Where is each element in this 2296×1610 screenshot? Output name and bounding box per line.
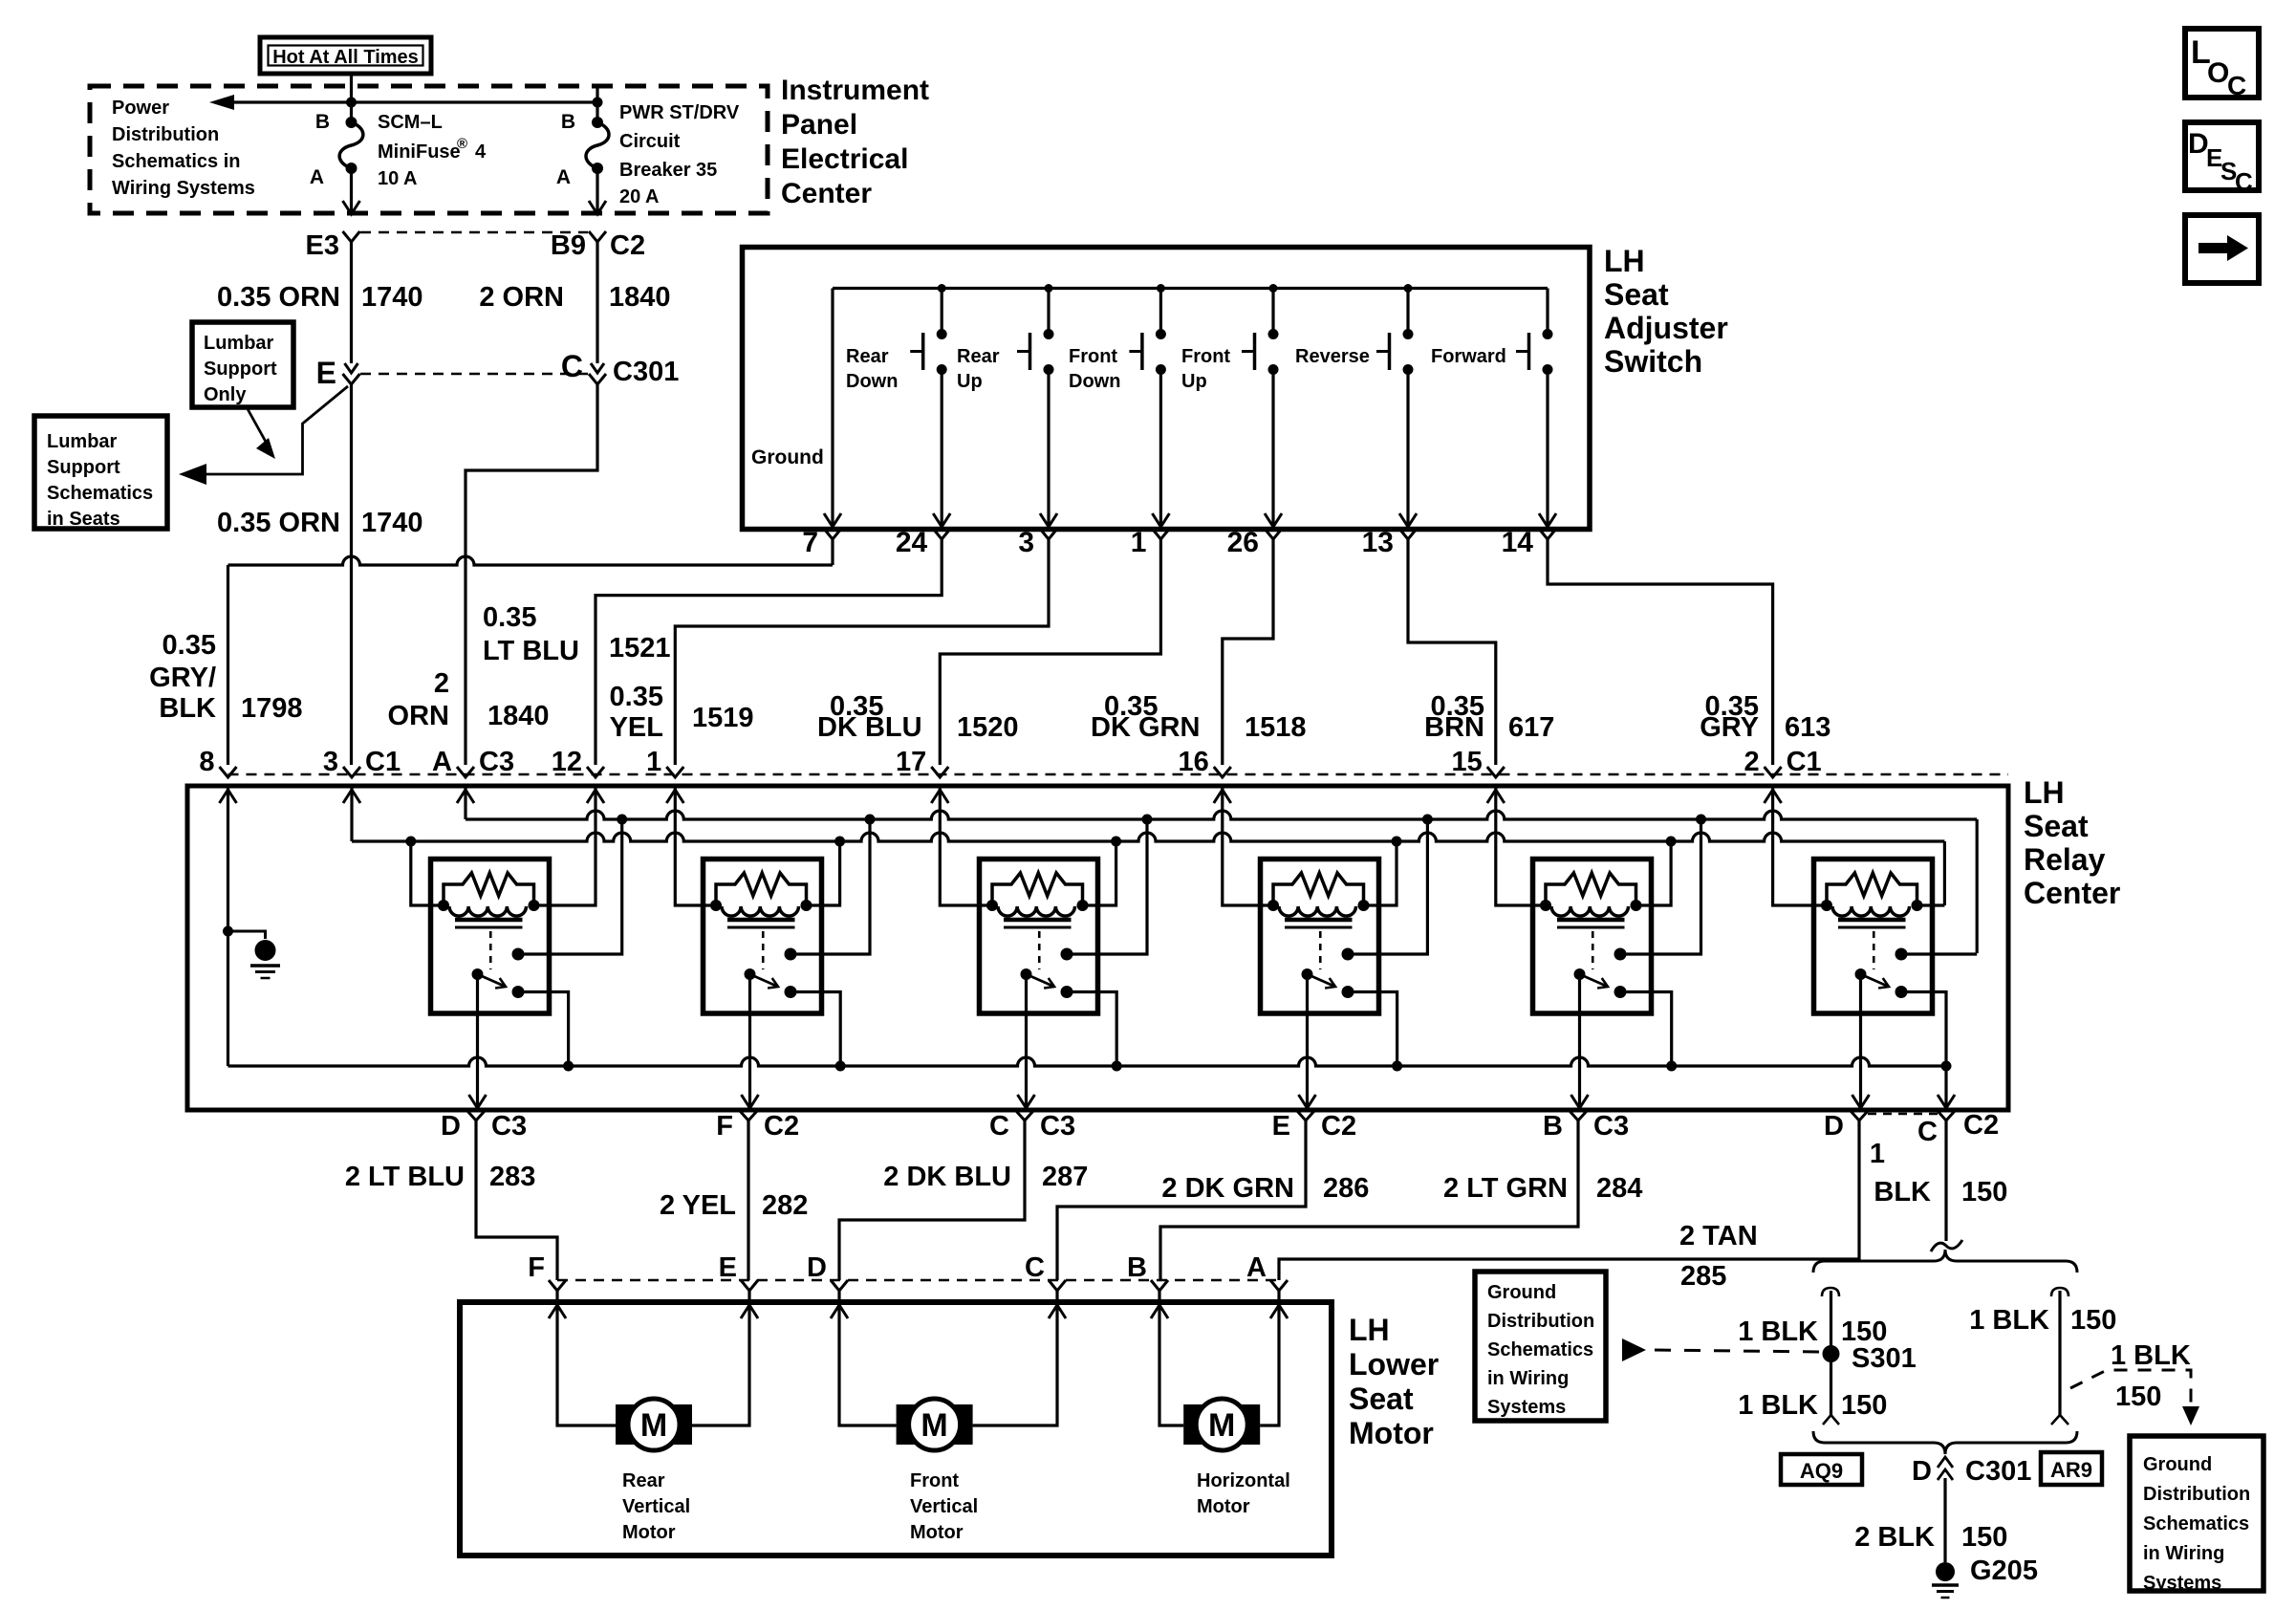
motor entry arrow C [1049, 1305, 1066, 1318]
dashed wire 1 BLK 150 to right Ground Distribution box [2070, 1370, 2191, 1405]
relay 3 coil [998, 906, 1075, 916]
motor connector chevron E [741, 1280, 758, 1291]
node S301 [1823, 1345, 1840, 1362]
relay 2 actuator dashed link [762, 931, 765, 969]
wire 2 BLK 150 to G205 [1943, 1478, 1946, 1562]
relay bottom pin D chevron [467, 1111, 485, 1120]
top brace (wire splice group) [1813, 1250, 2077, 1273]
relay 3 resistor [992, 873, 1083, 905]
svg-text:15: 15 [1452, 747, 1483, 777]
svg-text:Schematics: Schematics [2143, 1513, 2249, 1534]
switch pin 26 chevron [1265, 529, 1282, 539]
connector arrow E [345, 363, 358, 373]
svg-text:2 BLK: 2 BLK [1854, 1522, 1935, 1553]
relay 5 resistor [1546, 873, 1636, 905]
svg-text:Center: Center [2024, 876, 2120, 910]
motor pin F stem [555, 1291, 558, 1302]
relay 2 coil [722, 906, 799, 916]
svg-text:E: E [316, 356, 336, 390]
svg-text:O: O [2207, 57, 2229, 89]
svg-text:Motor: Motor [910, 1522, 964, 1543]
svg-text:LH: LH [2024, 775, 2065, 810]
switch internal bus [833, 287, 1548, 290]
relay 4 coil [1279, 906, 1356, 916]
svg-text:C2: C2 [764, 1111, 799, 1142]
svg-text:Ground: Ground [2143, 1454, 2212, 1475]
dashed connector segment D-C [1868, 1113, 1938, 1116]
wire motor 3 right lead [1260, 1302, 1279, 1425]
switch Forward: lower contact dot [1543, 364, 1553, 375]
right splice wire bottom feet [2051, 1415, 2069, 1425]
svg-text:1 BLK: 1 BLK [1969, 1305, 2049, 1336]
wire relay 6 lower contact to bottom bus [1901, 992, 1946, 1067]
wire 0.35 BRN 617 (pin 13 to relay pin 15) [1408, 539, 1496, 765]
svg-text:D: D [1912, 1456, 1932, 1487]
wire relay 2 common to output pin [748, 974, 751, 1106]
svg-text:Schematics: Schematics [1487, 1339, 1593, 1360]
wire relay 3 upper contact to row A [1067, 819, 1147, 954]
svg-text:C301: C301 [1965, 1456, 2031, 1487]
entry arrow at relay pin A [457, 790, 474, 803]
svg-text:Up: Up [1181, 371, 1207, 392]
relay 6 switch arm [1861, 974, 1890, 987]
junction dot at fuse B [346, 98, 357, 108]
svg-text:Power: Power [112, 98, 169, 119]
relay 1 resistor [444, 873, 534, 905]
relay bottom pin F chevron [740, 1111, 757, 1120]
svg-text:GRY: GRY [1700, 712, 1759, 743]
relay 3 actuator dashed link [1038, 931, 1041, 969]
motor pin D stem [837, 1291, 840, 1302]
relay 3 switch pivot dot [1021, 968, 1032, 980]
svg-text:Support: Support [204, 359, 277, 380]
svg-text:F: F [528, 1252, 545, 1283]
bottom bus junction dot relay 4 [1392, 1061, 1402, 1072]
relay 2 box [704, 859, 822, 1014]
switch pin 3 chevron [1040, 529, 1057, 539]
chassis ground symbol [255, 940, 276, 961]
motor connector chevron C [1049, 1280, 1066, 1291]
motor 1 circle [628, 1399, 680, 1450]
arrow from left Ground Distribution box [1622, 1338, 1646, 1361]
wire lumbar branch diagonal [205, 386, 348, 474]
svg-text:A: A [310, 166, 324, 188]
svg-text:Systems: Systems [1487, 1397, 1566, 1418]
svg-text:1740: 1740 [361, 508, 423, 538]
svg-text:D: D [1824, 1111, 1844, 1142]
relay 4 coil terminal dots [1267, 900, 1279, 911]
wire to chassis ground [228, 931, 266, 939]
svg-text:Horizontal: Horizontal [1197, 1470, 1290, 1491]
svg-text:Distribution: Distribution [1487, 1311, 1594, 1332]
svg-text:2 YEL: 2 YEL [660, 1190, 736, 1221]
switch Rear Down: feed from bus [941, 289, 943, 331]
relay 5 lower contact dot [1614, 986, 1627, 998]
relay 5 coil terminal dots [1540, 900, 1551, 911]
switch pin 24 chevron [933, 529, 950, 539]
svg-text:F: F [716, 1111, 733, 1142]
relay 1 lower contact dot [512, 986, 525, 998]
wire 0.35 GRY 613 (pin 14 to relay pin 2) [1548, 539, 1773, 765]
relay center pin 2 chevron [1765, 767, 1782, 777]
relay 6 coil terminal dots [1821, 900, 1832, 911]
motor 2 circle [909, 1399, 961, 1450]
switch Rear Up: feed from bus [1047, 289, 1050, 331]
motor entry arrow E [741, 1305, 758, 1318]
relay 2 switch arm [750, 974, 779, 987]
svg-text:Distribution: Distribution [2143, 1484, 2250, 1505]
switch Front Down: upper contact dot [1156, 329, 1166, 339]
relay 3 switch arm [1027, 974, 1055, 987]
relay 6 upper contact dot [1895, 948, 1908, 961]
wire pin 1 column to relay 2 coil [675, 786, 715, 905]
svg-text:C: C [2235, 167, 2253, 196]
relay 1 upper contact dot [512, 948, 525, 961]
switch Rear Down: actuator bar [921, 333, 925, 370]
row B corner down to relay 6 coil [1943, 841, 1946, 905]
svg-text:BRN: BRN [1424, 712, 1484, 743]
svg-text:2 DK GRN: 2 DK GRN [1161, 1173, 1294, 1204]
icon box arrow [2185, 215, 2259, 283]
svg-text:8: 8 [199, 747, 214, 777]
wire relay 5 upper contact to row A [1620, 819, 1701, 954]
svg-text:Up: Up [957, 371, 983, 392]
connector chevron E [343, 374, 360, 384]
row B bus (from pin 3 C1) [352, 833, 1944, 841]
svg-text:1 BLK: 1 BLK [1738, 1390, 1818, 1421]
svg-text:24: 24 [896, 527, 928, 558]
relay center pin 1 chevron [666, 767, 683, 777]
wire 1 BLK 150 (pin C C2 down) [1944, 1120, 1947, 1241]
svg-text:Panel: Panel [781, 109, 857, 141]
relay 6 lower contact dot [1895, 986, 1908, 998]
relay center pin 15 chevron [1487, 767, 1505, 777]
switch Rear Up: upper contact dot [1044, 329, 1054, 339]
svg-text:Seat: Seat [2024, 809, 2089, 843]
ground column in switch [831, 289, 834, 526]
wire 2 LT BLU 283 (pin D to motor F) [476, 1120, 557, 1280]
relay 4 upper contact dot [1342, 948, 1354, 961]
svg-text:3: 3 [323, 747, 338, 777]
svg-text:Seat: Seat [1349, 1382, 1414, 1416]
svg-text:150: 150 [2070, 1305, 2116, 1336]
entry arrow at relay pin 15 [1487, 790, 1505, 803]
svg-text:C2: C2 [1321, 1111, 1356, 1142]
relay 5 box [1533, 859, 1652, 1014]
relay center pin 3 chevron [343, 767, 360, 777]
wire 0.35 DK BLU 1520 (pin 1 to relay pin 17) [940, 539, 1160, 765]
left splice wire bottom feet [1823, 1415, 1839, 1425]
svg-text:Instrument: Instrument [781, 75, 929, 106]
wire pin 17 column to relay 3 coil [940, 786, 992, 905]
ground G205 symbol [1936, 1562, 1955, 1581]
relay 3 core lines [1004, 918, 1072, 923]
wire relay 4 upper contact to row A [1348, 819, 1427, 954]
svg-text:150: 150 [2115, 1382, 2161, 1412]
relay 1 switch pivot dot [472, 968, 484, 980]
svg-text:Forward: Forward [1431, 346, 1506, 367]
relay 5 actuator dashed link [1592, 931, 1594, 969]
connector chevron B9 C2 [589, 231, 606, 242]
svg-text:BLK: BLK [1874, 1177, 1931, 1207]
svg-text:C: C [1025, 1252, 1045, 1283]
junction dot at breaker top [593, 98, 603, 108]
label box AR9 [2041, 1452, 2102, 1485]
svg-text:1: 1 [646, 747, 661, 777]
svg-text:287: 287 [1042, 1162, 1088, 1192]
svg-text:C2: C2 [1963, 1110, 1999, 1141]
svg-text:1: 1 [1131, 527, 1147, 558]
svg-text:13: 13 [1362, 527, 1394, 558]
relay center pin 8 chevron [220, 767, 237, 777]
motor 3 brush block [1183, 1404, 1260, 1445]
switch Front Up: actuator bar [1253, 333, 1257, 370]
svg-text:Vertical: Vertical [910, 1496, 978, 1517]
LH Seat Relay Center box [187, 786, 2008, 1110]
wire relay 4 lower contact to bottom bus [1348, 992, 1397, 1067]
relay bottom pin E chevron [1297, 1111, 1314, 1120]
svg-text:Reverse: Reverse [1295, 346, 1370, 367]
relay 1 switch arm [478, 974, 507, 987]
LH Lower Seat Motor box [460, 1302, 1332, 1556]
wire break squiggle on 1 BLK 150 [1931, 1240, 1962, 1251]
entry arrow at relay pin 2 [1765, 790, 1782, 803]
motor connector chevron B [1151, 1280, 1168, 1291]
circuit breaker PWR ST/DRV terminal B dot [592, 117, 603, 128]
label box AQ9 [1781, 1454, 1862, 1485]
switch Rear Up: lower contact dot [1044, 364, 1054, 375]
svg-text:Rear: Rear [957, 346, 1000, 367]
row B junction dot relay 4 coil feed [1392, 837, 1402, 847]
relay 1 core lines [455, 918, 523, 923]
row A junction dot relay 4 [1422, 815, 1433, 825]
wire relay 3 lower contact to bottom bus [1067, 992, 1116, 1067]
label box Lumbar Support Schematics in Seats [34, 416, 167, 529]
connector D C301 double chevron [1938, 1457, 1953, 1468]
relay 6 resistor [1827, 873, 1917, 905]
switch Rear Down: output wire [941, 370, 943, 526]
svg-text:2 ORN: 2 ORN [479, 282, 564, 313]
svg-text:Seat: Seat [1604, 277, 1669, 312]
relay 3 lower contact dot [1061, 986, 1073, 998]
svg-text:C: C [561, 349, 583, 383]
switch Reverse: feed from bus [1406, 289, 1409, 331]
switch pin 14 chevron [1539, 529, 1556, 539]
svg-text:1 BLK: 1 BLK [2111, 1340, 2191, 1371]
wire relay 1 lower contact to bottom bus [518, 992, 569, 1067]
svg-text:150: 150 [1841, 1390, 1887, 1421]
svg-text:Lumbar: Lumbar [204, 333, 274, 354]
relay 3 box [980, 859, 1098, 1014]
relay 4 switch arm [1308, 974, 1336, 987]
switch Forward: feed from bus [1546, 289, 1549, 331]
svg-text:in Wiring: in Wiring [2143, 1543, 2224, 1564]
wire B+ feed with arrow to Power Distribution [222, 100, 597, 103]
svg-text:LT BLU: LT BLU [483, 636, 579, 666]
svg-text:Adjuster: Adjuster [1604, 311, 1728, 345]
svg-text:1798: 1798 [241, 693, 303, 724]
wire 0.35 YEL 1519 (pin 3 to relay pin 1) [675, 539, 1049, 765]
switch Front Up: upper contact dot [1268, 329, 1279, 339]
svg-text:282: 282 [762, 1190, 808, 1221]
wire row B drop to relay 3 coil right [1083, 841, 1116, 905]
entry arrow at relay pin 17 [931, 790, 948, 803]
svg-text:MiniFuse: MiniFuse [378, 141, 461, 163]
svg-text:3: 3 [1018, 527, 1034, 558]
relay 5 core lines [1557, 918, 1625, 923]
wire bus to pin C C2 exit [1944, 1066, 1947, 1106]
motor 1 brush block [616, 1404, 692, 1445]
relay 2 lower contact dot [785, 986, 797, 998]
svg-text:Wiring Systems: Wiring Systems [112, 178, 255, 199]
relay 3 coil terminal dots [986, 900, 998, 911]
svg-text:LH: LH [1349, 1313, 1390, 1347]
motor entry arrow F [549, 1305, 566, 1318]
svg-text:Switch: Switch [1604, 344, 1702, 379]
relay center pin A chevron [457, 767, 474, 777]
label box Lumbar Support Only [192, 322, 293, 407]
svg-text:C3: C3 [1040, 1111, 1075, 1142]
wire relay 3 common to output pin [1025, 974, 1028, 1106]
wire row B corner to relay 6 coil right [1917, 903, 1945, 906]
motor 3 circle [1196, 1399, 1247, 1450]
fuse SCM-L terminal A dot [346, 163, 357, 174]
relay 1 coil [449, 906, 527, 916]
switch Reverse: output wire [1406, 370, 1409, 526]
LH Seat Adjuster Switch box [743, 248, 1591, 530]
svg-text:14: 14 [1502, 527, 1534, 558]
label box 'Hot At All Times' [260, 37, 431, 74]
relay 6 core lines [1838, 918, 1906, 923]
connector dashed line E3-B9 [360, 231, 588, 234]
relay 6 coil [1832, 906, 1910, 916]
entry arrow at relay pin 12 [587, 790, 604, 803]
wire row B to relay 1 coil left [411, 841, 444, 905]
relay 6 box [1814, 859, 1933, 1014]
svg-text:LH: LH [1604, 244, 1645, 278]
svg-text:E3: E3 [306, 230, 339, 261]
circuit breaker terminal A dot [592, 163, 603, 174]
svg-text:1518: 1518 [1245, 712, 1307, 743]
relay 1 coil terminal dots [438, 900, 449, 911]
svg-text:DK GRN: DK GRN [1091, 712, 1200, 743]
relay connector dashed line [228, 773, 2009, 776]
junction dot ground branch [223, 926, 233, 937]
dashed wire to S301 [1655, 1350, 1822, 1352]
wire 0.35 LT BLU 1521 (pin 24 to relay pin 12) [596, 539, 942, 765]
svg-text:1 BLK: 1 BLK [1738, 1316, 1818, 1347]
motor connector dashed line [557, 1279, 1279, 1282]
svg-text:150: 150 [1961, 1177, 2007, 1207]
motor entry arrow D [831, 1305, 848, 1318]
svg-text:B: B [561, 111, 575, 133]
row B junction dot relay 2 coil feed [834, 837, 845, 847]
Instrument Panel Electrical Center dashed box [90, 86, 768, 213]
relay bottom pin C chevron [1016, 1111, 1033, 1120]
relay 5 coil [1551, 906, 1629, 916]
svg-text:AQ9: AQ9 [1800, 1459, 1843, 1483]
svg-text:C: C [989, 1111, 1009, 1142]
svg-text:0.35 ORN: 0.35 ORN [217, 282, 340, 313]
svg-text:E: E [1272, 1111, 1290, 1142]
motor pin E stem [747, 1291, 750, 1302]
wire pin 8 column (ground feed) [227, 786, 229, 1066]
svg-text:AR9: AR9 [2050, 1458, 2092, 1482]
relay 2 resistor [716, 873, 807, 905]
connector chevron E3 [343, 231, 360, 242]
arrow from Lumbar Support Only box [247, 407, 271, 450]
motor 2 brush block [897, 1404, 973, 1445]
relay 2 switch pivot dot [745, 968, 756, 980]
svg-text:2 DK BLU: 2 DK BLU [883, 1162, 1011, 1192]
switch Rear Up: output wire [1047, 370, 1050, 526]
svg-text:Rear: Rear [622, 1470, 665, 1491]
svg-text:GRY/: GRY/ [149, 663, 216, 693]
relay 4 core lines [1285, 918, 1353, 923]
relay 5 switch pivot dot [1574, 968, 1586, 980]
relay 4 actuator dashed link [1319, 931, 1322, 969]
switch Reverse: upper contact dot [1403, 329, 1414, 339]
entry arrow at relay pin 1 [666, 790, 683, 803]
entry arrow at relay pin 3 [343, 790, 360, 803]
relay 2 core lines [727, 918, 795, 923]
relay 3 upper contact dot [1061, 948, 1073, 961]
wire 2 TAN 285 (pin D to motor A) [1279, 1120, 1859, 1280]
svg-text:26: 26 [1227, 527, 1259, 558]
bottom brace (wire splice group) [1813, 1431, 2077, 1454]
wire row B drop to relay 4 coil right [1364, 841, 1397, 905]
svg-text:Front: Front [1181, 346, 1230, 367]
svg-text:Motor: Motor [1197, 1496, 1250, 1517]
svg-text:Front: Front [1069, 346, 1117, 367]
wire relay 2 lower contact to bottom bus [791, 992, 840, 1067]
wire 2 LT GRN 284 (pin B to motor B) [1160, 1120, 1578, 1280]
relay 4 box [1261, 859, 1379, 1014]
wire pin 2 column to relay 6 coil [1773, 786, 1828, 905]
icon box DESC [2185, 122, 2259, 190]
motor entry arrow B [1151, 1305, 1168, 1318]
switch Reverse: actuator bar [1388, 333, 1392, 370]
wire 2 YEL 282 (pin F to motor E) [747, 1120, 749, 1280]
svg-text:2 TAN: 2 TAN [1679, 1221, 1758, 1251]
svg-text:SCM–L: SCM–L [378, 112, 443, 133]
svg-text:285: 285 [1680, 1261, 1726, 1292]
relay center pin 17 chevron [931, 767, 948, 777]
relay 6 switch pivot dot [1855, 968, 1867, 980]
svg-text:150: 150 [1841, 1316, 1887, 1347]
svg-text:Distribution: Distribution [112, 124, 219, 145]
svg-text:A: A [432, 747, 452, 777]
switch Front Down: output wire [1159, 370, 1162, 526]
svg-text:B: B [1127, 1252, 1147, 1283]
svg-text:Motor: Motor [622, 1522, 676, 1543]
switch Front Up: feed from bus [1271, 289, 1274, 331]
svg-text:1519: 1519 [692, 703, 754, 733]
switch Front Up: output wire [1271, 370, 1274, 526]
svg-text:C3: C3 [1593, 1111, 1629, 1142]
motor pin C stem [1055, 1291, 1058, 1302]
svg-text:2 LT BLU: 2 LT BLU [345, 1162, 465, 1192]
svg-text:0.35 ORN: 0.35 ORN [217, 508, 340, 538]
svg-text:Schematics in: Schematics in [112, 151, 241, 172]
motor connector chevron F [549, 1280, 566, 1291]
svg-text:Center: Center [781, 178, 872, 209]
switch pin 7 chevron [824, 529, 841, 539]
row A bus (from pin A C3) [466, 811, 1977, 819]
wire pin 12 column to relay 1 coil [533, 786, 596, 905]
right splice wire [2058, 1291, 2061, 1415]
svg-text:YEL: YEL [610, 712, 663, 743]
